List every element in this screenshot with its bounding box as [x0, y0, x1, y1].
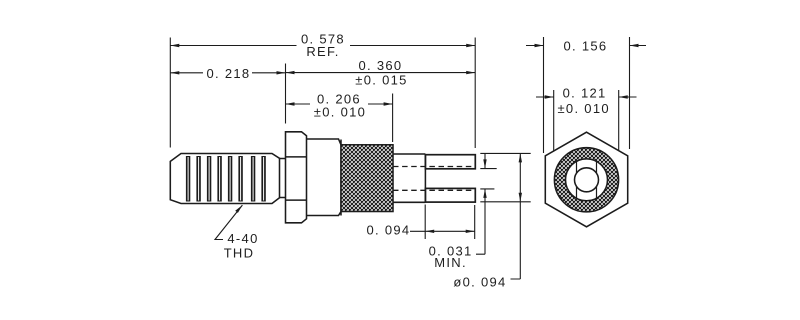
ext lines knurl OD end view: [554, 90, 619, 151]
knurl section side view: [341, 145, 393, 212]
pin lower: [425, 188, 475, 202]
slot lines: [577, 161, 597, 198]
threaded stud body outline: [170, 154, 279, 204]
hexagon: [545, 132, 627, 227]
shaft after knurl: [393, 154, 425, 202]
dimension 0.578 REF: [170, 45, 475, 47]
svg-text:0. 121: 0. 121: [563, 86, 607, 101]
dimension 0.031 slot arrows: [476, 154, 485, 254]
dimension 0.156 hex flats arrows: [526, 45, 646, 47]
hidden bore dashed lines: [393, 167, 475, 191]
dimension 0.121 knurl OD arrows: [536, 96, 637, 98]
cylinder shoulder: [307, 139, 342, 216]
dimension extension lines: [170, 37, 629, 239]
svg-text:0. 360: 0. 360: [359, 58, 403, 73]
center hole: [575, 168, 599, 192]
svg-text:THD: THD: [224, 245, 255, 260]
knurl ring crosshatch: [554, 148, 618, 212]
svg-text:MIN.: MIN.: [434, 255, 467, 270]
svg-text:0. 218: 0. 218: [207, 66, 251, 81]
neck undercut: [280, 159, 286, 198]
svg-text:ø0. 094: ø0. 094: [453, 275, 506, 290]
ext lines pin length below: [425, 205, 475, 240]
svg-text:±0. 010: ±0. 010: [314, 105, 366, 120]
hex flat lines: [286, 157, 307, 200]
ext lines slot 0.031: [480, 169, 496, 189]
ext line knurl right: [392, 94, 394, 143]
ext lines hex across flats end view: [544, 37, 630, 153]
svg-text:REF.: REF.: [306, 44, 339, 59]
svg-text:±0. 010: ±0. 010: [558, 101, 610, 116]
svg-text:0. 156: 0. 156: [564, 39, 608, 54]
pin upper: [425, 155, 475, 169]
thread crest lines: [186, 156, 266, 202]
ext lines pin OD: [480, 153, 530, 201]
svg-text:4-40: 4-40: [227, 231, 258, 246]
dimension 0.218: [170, 72, 285, 74]
svg-text:0. 094: 0. 094: [367, 223, 411, 238]
svg-text:±0. 015: ±0. 015: [355, 72, 407, 87]
dimension 0.360: [286, 72, 476, 74]
dimension pin OD leader: [511, 153, 521, 279]
ext line hex left face: [285, 64, 287, 124]
dimension 0.206: [286, 103, 393, 105]
ext line pin right end top: [474, 38, 476, 149]
outer knurl circle: [554, 148, 618, 212]
inner circle: [566, 159, 608, 201]
leader 4-40 THD: [215, 205, 242, 239]
hex nut side view: [286, 132, 307, 223]
dimension 0.094 pin length: [410, 230, 475, 232]
ext line left end of stud: [169, 38, 171, 148]
